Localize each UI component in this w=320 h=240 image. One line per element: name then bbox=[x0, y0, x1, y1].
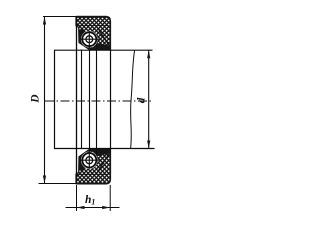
dim h1 extension left bbox=[76, 185, 78, 211]
garter spring inner coil bbox=[86, 157, 93, 164]
dim d arrow top bbox=[147, 50, 150, 58]
back corner edge line bbox=[110, 50, 112, 151]
seal upper half section bbox=[76, 17, 111, 50]
sealing lip solid mass bbox=[79, 150, 98, 171]
dim d arrow bottom bbox=[147, 141, 150, 149]
dim h1 arrow left bbox=[77, 206, 85, 209]
rubber body hatched section bbox=[76, 150, 111, 184]
seal lower half section (mirror) bbox=[76, 149, 111, 184]
dim D arrow top bbox=[43, 17, 46, 25]
dim D extension top bbox=[43, 16, 77, 18]
case outer edge (thick) bbox=[76, 16, 107, 18]
dim D line bbox=[44, 17, 46, 184]
spring center mark horizontal bbox=[80, 159, 99, 161]
lip heel solid strip bbox=[90, 149, 110, 156]
svg-text:h1: h1 bbox=[85, 194, 95, 207]
shaft end face bbox=[54, 50, 56, 148]
relief pocket bbox=[92, 44, 99, 47]
case inner edge bbox=[77, 173, 109, 175]
lip heel solid strip bbox=[90, 43, 110, 50]
rubber body hatched section bbox=[76, 17, 111, 50]
spring groove halo bbox=[81, 31, 98, 48]
front face edge line bbox=[76, 17, 78, 184]
spring center mark horizontal bbox=[80, 38, 99, 40]
garter spring inner coil bbox=[86, 36, 93, 43]
shaft break wavy line bbox=[131, 50, 135, 148]
axis centerline bbox=[45, 100, 153, 102]
spring groove halo bbox=[81, 152, 98, 169]
shaft surface bottom bbox=[54, 148, 155, 150]
garter spring outer coil bbox=[82, 153, 96, 168]
case inner edge bbox=[77, 25, 109, 27]
spring groove edge line bbox=[96, 45, 98, 156]
dim h1 extension right bbox=[109, 185, 111, 211]
back cone edge bbox=[98, 152, 110, 171]
spring center mark vertical bbox=[88, 31, 90, 48]
svg-text:d: d bbox=[136, 97, 148, 103]
spring center mark vertical bbox=[88, 151, 90, 169]
back cone edge bbox=[98, 29, 110, 47]
relief pocket bbox=[92, 151, 99, 154]
sealing lip solid mass bbox=[79, 30, 98, 50]
shaft surface top bbox=[54, 49, 153, 51]
dim D arrow bottom bbox=[43, 176, 46, 184]
dim h1 line bbox=[66, 207, 120, 209]
dim D extension bottom bbox=[39, 183, 77, 185]
lip contact edge line bbox=[89, 50, 91, 151]
lip front edge line bbox=[81, 50, 83, 149]
case outer edge (thick) bbox=[76, 183, 107, 185]
dim d line bbox=[148, 50, 150, 148]
dim h1 arrow right bbox=[102, 206, 110, 209]
garter spring outer coil bbox=[82, 32, 96, 46]
svg-text:D: D bbox=[29, 94, 41, 104]
